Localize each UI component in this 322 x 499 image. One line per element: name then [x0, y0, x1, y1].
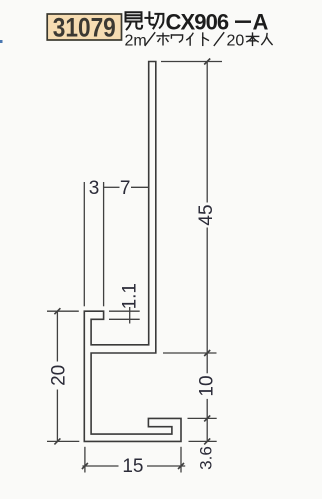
dim 15 extension right	[180, 447, 182, 473]
dim 10 tick	[204, 415, 210, 421]
dim 3.6 extension	[189, 440, 217, 442]
svg-text:CX906: CX906	[166, 9, 229, 34]
subtitle 20	[227, 33, 245, 50]
svg-text:3.6: 3.6	[197, 446, 216, 470]
svg-text:7: 7	[120, 178, 131, 199]
svg-text:1.1: 1.1	[120, 283, 141, 309]
dim 3.6 line	[206, 418, 208, 441]
title letter A	[253, 9, 269, 34]
dim 15 tick right	[178, 463, 184, 469]
title long dash	[235, 20, 251, 23]
subtitle kana ト	[203, 33, 209, 45]
dim 45 line	[206, 62, 208, 354]
svg-text:20: 20	[49, 365, 70, 386]
svg-text:A: A	[253, 9, 269, 34]
svg-text:10: 10	[197, 375, 218, 396]
title text CX906	[166, 9, 229, 34]
dim 15 line	[82, 465, 185, 467]
dim 45 tick mid	[204, 350, 210, 356]
profile outline	[84, 62, 181, 442]
subtitle 2m	[125, 33, 147, 50]
dim 3-7 extension left	[83, 182, 85, 306]
dim 15 extension left	[84, 447, 86, 473]
scan artifact dot	[0, 40, 3, 43]
dim 10 extension	[188, 417, 217, 419]
dim text 3.6	[197, 446, 216, 470]
dim 20 extension bottom	[47, 440, 79, 442]
title kanji 見	[126, 12, 143, 29]
svg-text:45: 45	[196, 204, 217, 225]
subtitle kana ワ	[171, 35, 182, 42]
dim 7 line	[104, 186, 149, 188]
dim 3.6 tick	[204, 438, 210, 444]
dim 45 extension mid	[163, 352, 217, 354]
svg-text:31079: 31079	[53, 14, 116, 43]
subtitle kanji 入	[262, 34, 272, 45]
dim 10 line	[206, 353, 208, 418]
subtitle slash 2	[214, 33, 224, 46]
svg-text:3: 3	[89, 178, 100, 199]
dim text 1.1	[120, 283, 141, 309]
dim text 3	[89, 178, 100, 199]
dim 45 extension top	[161, 61, 222, 63]
dim 45 tick top	[204, 59, 210, 65]
dim text 15	[122, 456, 143, 477]
subtitle slash 1	[145, 33, 155, 46]
dim text 45	[196, 204, 217, 225]
svg-text:2m: 2m	[125, 33, 147, 50]
title kanji 切	[145, 12, 163, 28]
dim 20 extension top	[47, 310, 79, 312]
dim text 20	[49, 365, 70, 386]
svg-text:20: 20	[227, 33, 245, 50]
dim text 7	[120, 178, 131, 199]
dim 20 tick top	[54, 308, 60, 314]
item code box	[47, 14, 121, 40]
dim 20 tick bottom	[54, 438, 60, 444]
dim 1.1 leader top	[109, 310, 140, 312]
item code 31079	[53, 14, 116, 43]
subtitle kana イ	[187, 33, 193, 45]
dim text 10	[197, 375, 218, 396]
svg-text:15: 15	[122, 456, 143, 477]
dim 1.1 leader bottom	[109, 318, 140, 320]
dim 20 line	[56, 311, 58, 441]
dim 1.1 pointer	[129, 307, 131, 324]
dim 15 tick left	[82, 463, 88, 469]
subtitle kanji 本	[246, 33, 258, 45]
subtitle kana ホ	[157, 33, 169, 44]
dim 3-7 extension mid	[103, 182, 105, 306]
